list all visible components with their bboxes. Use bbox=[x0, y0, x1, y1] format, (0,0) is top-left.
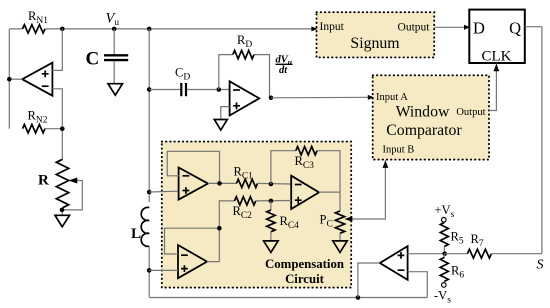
svg-text:Signum: Signum bbox=[350, 35, 400, 52]
node L bottom bbox=[147, 268, 152, 273]
wire window output to CLK bbox=[489, 64, 496, 111]
resistor R_C4 bbox=[270, 201, 272, 210]
wire R_N2 to node bbox=[45, 128, 62, 130]
svg-text:C: C bbox=[86, 49, 100, 70]
wire L bottom to rail bbox=[148, 246, 150, 297]
node rail branch bbox=[147, 27, 152, 32]
wiper arrow P_C bbox=[344, 216, 352, 221]
wire C_D branch bbox=[149, 89, 180, 91]
node C_D branch bbox=[147, 87, 152, 92]
wire U4 output bbox=[208, 182, 237, 184]
svg-text:Comparator: Comparator bbox=[386, 122, 462, 139]
resistor R_D bbox=[233, 50, 254, 58]
op-amp U5 bbox=[291, 176, 319, 209]
ground below R bbox=[55, 215, 70, 227]
svg-text:R: R bbox=[38, 173, 49, 189]
wire U6 noninverting input bbox=[408, 253, 445, 255]
svg-text:R6: R6 bbox=[451, 264, 464, 281]
node R_N1 right / op-amp input tap bbox=[60, 27, 65, 32]
potentiometer R bbox=[56, 159, 68, 208]
op-amp U3 derivative bbox=[230, 81, 260, 115]
resistor R_N1 bbox=[23, 24, 46, 35]
wire middle rail bbox=[148, 29, 150, 202]
svg-text:Input A: Input A bbox=[376, 92, 408, 103]
op-amp U4 lower bbox=[178, 245, 207, 278]
wire U3 noninverting to ground bbox=[221, 107, 230, 120]
resistor R_C1 bbox=[237, 179, 258, 187]
svg-text:Circuit: Circuit bbox=[285, 272, 325, 286]
svg-text:CD: CD bbox=[175, 66, 190, 83]
node bottom rail junction bbox=[356, 295, 361, 300]
potentiometer P_C bbox=[335, 211, 344, 233]
wire Vu to C bbox=[113, 29, 115, 54]
wire R_C1 to U5 bbox=[258, 182, 292, 185]
wire U6 inverting feedback bbox=[408, 272, 428, 298]
wire C to ground bbox=[113, 61, 115, 83]
wire left rail bbox=[8, 29, 10, 129]
wire Q output right rail bbox=[525, 27, 542, 254]
wire R bottom bbox=[61, 208, 63, 216]
svg-text:D: D bbox=[473, 19, 485, 38]
node L top bbox=[147, 190, 152, 195]
svg-text:Compensation: Compensation bbox=[265, 257, 344, 271]
wire R_C2 row bbox=[219, 201, 291, 229]
node U5 inverting input bbox=[269, 182, 274, 187]
svg-text:Input B: Input B bbox=[383, 145, 415, 156]
svg-text:CLK: CLK bbox=[482, 49, 512, 65]
signum block bbox=[317, 12, 435, 57]
node op-amp U1 output bbox=[7, 77, 12, 82]
resistor R_C2 bbox=[235, 197, 256, 205]
arrowhead D input bbox=[464, 25, 470, 30]
ground below U3 bbox=[214, 120, 227, 131]
op-amp U1 bbox=[22, 63, 52, 96]
svg-text:RN2: RN2 bbox=[28, 109, 48, 126]
resistor R6 bbox=[443, 254, 445, 258]
wire U5 output bbox=[319, 191, 340, 193]
terminal -Vs bbox=[442, 283, 447, 288]
wiper arrow R bbox=[68, 178, 77, 184]
svg-text:RD: RD bbox=[237, 33, 252, 50]
arrowhead input B bbox=[383, 160, 389, 168]
arrowhead CLK bbox=[494, 64, 500, 72]
op-amp U4 bbox=[179, 168, 208, 200]
node R bottom bbox=[60, 208, 65, 213]
wire C_D to U3 input bbox=[187, 89, 229, 91]
wire U4 feedback bbox=[167, 151, 219, 183]
wire U4L feedback bbox=[165, 228, 220, 261]
wire U3 output to window comparator bbox=[271, 96, 372, 99]
wire U1 inverting input bbox=[52, 89, 62, 160]
ground below C bbox=[108, 84, 123, 96]
resistor R_N2 bbox=[23, 123, 46, 134]
svg-text:Output: Output bbox=[456, 107, 485, 118]
svg-text:Input: Input bbox=[320, 21, 345, 33]
node U4 output bbox=[217, 181, 222, 186]
arrowhead signum input bbox=[311, 26, 317, 31]
svg-text:S: S bbox=[537, 258, 544, 273]
wire U6 output bbox=[358, 263, 380, 298]
capacitor C bbox=[104, 54, 128, 56]
ground below R_C4 bbox=[264, 241, 279, 253]
node Vu bbox=[112, 27, 117, 32]
svg-text:Output: Output bbox=[398, 22, 431, 34]
arrowhead input A bbox=[368, 95, 374, 100]
svg-text:R5: R5 bbox=[451, 230, 464, 247]
svg-text:R7: R7 bbox=[471, 232, 484, 249]
svg-text:-Vs: -Vs bbox=[434, 289, 451, 306]
D flip-flop U2 bbox=[469, 10, 525, 63]
window comparator block bbox=[373, 75, 489, 159]
compensation circuit block bbox=[162, 142, 351, 288]
wire signum to D bbox=[434, 26, 469, 28]
svg-text:dt: dt bbox=[279, 65, 288, 76]
svg-text:Q: Q bbox=[509, 19, 521, 38]
svg-text:L: L bbox=[131, 226, 141, 242]
node U3 output bbox=[269, 96, 274, 101]
wire U1 noninverting input bbox=[52, 29, 62, 71]
wire top rail Vu bbox=[9, 28, 316, 30]
node R_C2 right bbox=[269, 199, 274, 204]
wire L bottom to U4L input bbox=[149, 269, 178, 271]
node C_D output bbox=[217, 87, 222, 92]
node R_N2 right bbox=[60, 126, 65, 131]
svg-text:Window: Window bbox=[396, 104, 450, 121]
wire R_C3 feedback bbox=[271, 151, 340, 211]
node R5 R6 R7 bbox=[442, 251, 447, 256]
wire R_D feedback bbox=[219, 55, 270, 98]
resistor R7 bbox=[445, 253, 468, 255]
inductor L bbox=[141, 207, 149, 246]
capacitor C_D bbox=[180, 83, 182, 96]
wire U1 output bbox=[9, 78, 22, 80]
op-amp U6 comparator bbox=[380, 246, 408, 280]
resistor R_C3 bbox=[296, 147, 317, 155]
resistor R5 bbox=[443, 221, 445, 223]
ground below P_C bbox=[333, 241, 347, 253]
svg-text:Vu: Vu bbox=[106, 11, 120, 29]
svg-text:RN1: RN1 bbox=[28, 9, 48, 26]
node U4L feedback bbox=[217, 226, 222, 231]
wire L top to U4 input bbox=[149, 190, 179, 193]
wire bottom rail bbox=[149, 297, 427, 299]
